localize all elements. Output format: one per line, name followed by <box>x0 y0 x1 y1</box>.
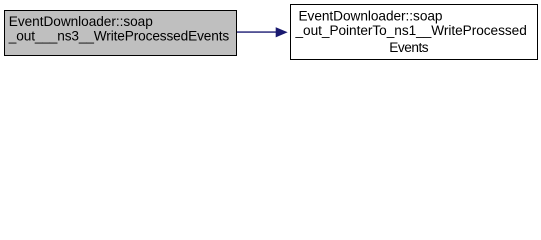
node Node2 EventDownloader::soap_out_PointerTo_ns1__WriteProcessedEvents <box>291 5 538 60</box>
wire edge Node1 to Node2 <box>237 31 278 33</box>
svg-text:EventDownloader::soap: EventDownloader::soap <box>299 9 443 24</box>
arrowhead edge Node1 to Node2 <box>276 28 286 37</box>
svg-text:_out___ns3__WriteProcessedEven: _out___ns3__WriteProcessedEvents <box>8 28 230 43</box>
node Node1 EventDownloader::soap_out___ns3__WriteProcessedEvents <box>5 11 237 56</box>
svg-text:Events: Events <box>389 40 428 55</box>
svg-text:_out_PointerTo_ns1__WriteProce: _out_PointerTo_ns1__WriteProcessed <box>295 23 527 38</box>
svg-text:EventDownloader::soap: EventDownloader::soap <box>9 14 153 29</box>
